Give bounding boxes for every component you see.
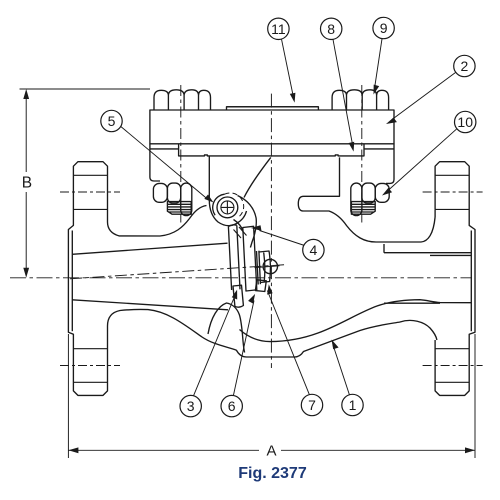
balloon 3 [180, 395, 201, 416]
lower left stud nut facets [153, 183, 167, 202]
svg-text:Fig. 2377: Fig. 2377 [238, 465, 307, 482]
arrowhead item 11 [290, 93, 296, 103]
top left hex nut [154, 90, 211, 110]
arrowhead item 10 [382, 188, 392, 196]
leader line item 11 [282, 39, 294, 96]
swing arm outer edge [238, 196, 257, 248]
leader line item 5 [121, 127, 208, 200]
balloon 11 [268, 18, 289, 39]
arrowhead item 2 [386, 118, 397, 125]
arm hanger strap [228, 225, 240, 290]
outlet bore bottom line [384, 302, 440, 304]
disc axis tick [255, 266, 280, 268]
callout numbers [108, 20, 474, 414]
right flange bolt hole centerlines [423, 191, 483, 193]
bonnet body flange left edge [150, 144, 160, 181]
disc nut [259, 251, 271, 283]
body: cavity floor and right hub curve to right raised face [240, 300, 472, 342]
left flange bolt hole centerlines [60, 191, 120, 193]
left flange bolt hole lines [73, 175, 107, 382]
inlet bore top line [72, 243, 227, 254]
right bolt centerline [361, 85, 363, 223]
vertical centerline [270, 94, 272, 368]
arrowhead item 1 [332, 340, 339, 350]
gasket strip on cover top [227, 107, 319, 110]
svg-text:1: 1 [349, 397, 357, 413]
hinge boss hidden circle (dashed) [225, 193, 244, 217]
left flange raised face line [71, 231, 73, 332]
svg-text:8: 8 [327, 21, 335, 37]
leader line item 2 [392, 73, 456, 120]
balloon 5 [101, 110, 122, 131]
leader line item 8 [333, 39, 353, 145]
hinge pin inner [221, 201, 234, 214]
hinge pin cross [221, 201, 233, 213]
disc plate [243, 226, 257, 291]
right flange outline [435, 162, 475, 396]
hinge bracket right edge curve [244, 157, 271, 197]
disc washer [257, 251, 261, 285]
svg-text:9: 9 [380, 20, 388, 36]
arrowhead item 7 [267, 284, 273, 294]
leader line item 10 [388, 129, 457, 191]
right bore counterbore lines [430, 209, 472, 255]
right cavity wall with shelf [298, 157, 435, 242]
svg-text:5: 5 [108, 113, 116, 129]
disc nut dome [263, 259, 277, 273]
leader line item 4 [260, 231, 305, 246]
hinge bracket left leg and sweep under pin [209, 156, 246, 226]
arrowhead item 4 [251, 225, 262, 231]
top right hex nut [332, 90, 389, 110]
outlet bore top line [384, 244, 472, 253]
hinge pin outer [217, 197, 238, 218]
arrowhead item 9 [374, 85, 380, 95]
arrowhead item 6 [248, 294, 255, 304]
bonnet body flange right edge + corner [386, 144, 394, 184]
leader line item 1 [333, 345, 350, 395]
body: left inner bowl curve into bottom pad and outer rise to right ear [108, 309, 437, 357]
inlet bore bottom line [72, 300, 228, 310]
svg-text:11: 11 [271, 21, 286, 37]
lower left stud threads [167, 202, 191, 215]
leader line item 9 [375, 39, 383, 89]
svg-text:3: 3 [187, 398, 195, 414]
cover plate (bonnet) [150, 110, 394, 144]
body neck: left fillet from flange ear to neck flat and rise to hinge boss [108, 206, 207, 237]
body casting: left flange outline [68, 162, 107, 396]
svg-text:10: 10 [457, 114, 473, 130]
leader line item 7 [267, 291, 309, 395]
seat support boss bump [208, 303, 245, 353]
arrowhead item 5 [204, 195, 213, 203]
svg-text:2: 2 [461, 58, 469, 74]
arrowhead item 3 [232, 290, 237, 300]
lower right stud nut facets [375, 183, 389, 202]
leader line item 3 [194, 296, 235, 396]
svg-text:7: 7 [308, 397, 316, 413]
horizontal pipe centerline [10, 277, 472, 279]
left bolt centerline [180, 85, 182, 223]
bonnet joint step lines [150, 144, 394, 156]
disc lower lug [255, 280, 266, 292]
centerlines [10, 85, 483, 368]
svg-text:A: A [266, 442, 276, 459]
balloon 9 [373, 17, 394, 38]
lower left stud end capsule [181, 183, 192, 216]
hinge boss solid arc [213, 194, 225, 215]
svg-text:B: B [22, 174, 32, 191]
balloon 1 [342, 394, 363, 415]
balloon 4 [303, 239, 324, 260]
lower right stud end capsule [351, 183, 362, 216]
seat ring section [233, 285, 243, 307]
arrowhead item 8 [349, 142, 355, 152]
balloon 7 [301, 394, 322, 415]
svg-text:6: 6 [228, 398, 236, 414]
dimension B [20, 89, 151, 272]
swing arm inner edge [234, 220, 244, 232]
leader line item 6 [233, 301, 254, 396]
dimension A [68, 334, 475, 458]
balloon 6 [221, 395, 242, 416]
lower right stud threads [351, 202, 375, 215]
svg-text:4: 4 [310, 242, 318, 258]
tilted disc axis centerline [70, 265, 285, 279]
balloon 10 [455, 111, 476, 132]
balloon 2 [454, 55, 475, 76]
right flange bolt hole lines [435, 175, 469, 382]
right flange raised face line [470, 231, 472, 332]
balloon 8 [321, 18, 342, 39]
arm foot diagonals [234, 227, 247, 238]
